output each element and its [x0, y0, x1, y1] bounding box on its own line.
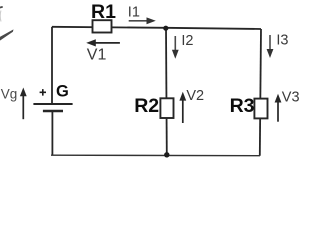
svg-text:I3: I3 [276, 33, 288, 49]
svg-text:Vg: Vg [1, 86, 18, 101]
svg-text:V1: V1 [87, 47, 107, 64]
svg-text:I1: I1 [128, 4, 140, 20]
svg-text:I2: I2 [181, 33, 193, 49]
svg-text:V2: V2 [186, 88, 204, 104]
svg-text:R2: R2 [134, 95, 159, 117]
svg-text:G: G [56, 83, 69, 101]
svg-text:R3: R3 [230, 95, 255, 117]
svg-text:R1: R1 [91, 1, 116, 23]
svg-text:V3: V3 [282, 90, 300, 106]
